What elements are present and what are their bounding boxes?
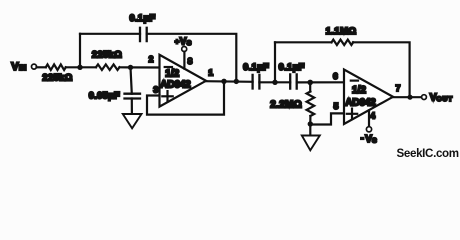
wire: pin 4 stem to -Vs bbox=[368, 110, 370, 126]
svg-text:0.1μF: 0.1μF bbox=[279, 62, 305, 72]
svg-text:VS: VS bbox=[365, 134, 377, 145]
wire: 2.2M bottom to node E bbox=[309, 116, 311, 124]
resistor 225k (second, series to pin 2) bbox=[96, 64, 120, 70]
wire: top feedback left segment bbox=[80, 33, 140, 35]
junction dot (output / top feedback) bbox=[234, 79, 239, 84]
ground symbol (stage 2) bbox=[302, 136, 320, 151]
svg-text:8: 8 bbox=[188, 56, 193, 66]
svg-text:SeekIC.com: SeekIC.com bbox=[397, 147, 459, 160]
svg-text:VOUT: VOUT bbox=[430, 93, 453, 104]
resistor 1.1M (stage-2 feedback) bbox=[332, 40, 354, 45]
U1 inverting input minus bar bbox=[165, 66, 172, 68]
wire: node D down to 2.2M bbox=[309, 82, 311, 91]
wire: R1 to node A bbox=[66, 66, 96, 68]
op-amp U2 1/2 AD642 triangle bbox=[344, 70, 393, 125]
svg-text:0.1μF: 0.1μF bbox=[243, 62, 269, 72]
wire: node E to pin 5 bbox=[310, 113, 344, 124]
svg-text:1/2: 1/2 bbox=[165, 69, 179, 80]
svg-text:AD642: AD642 bbox=[345, 97, 376, 108]
svg-text:4: 4 bbox=[370, 110, 375, 120]
junction dot (output / 1.1M feedback) bbox=[407, 95, 412, 100]
capacitor C2 0.05uF (shunt) bbox=[125, 94, 141, 99]
wire: C4 to pin 6 bbox=[297, 81, 344, 83]
wire: top feedback right segment down to op-amp output bbox=[147, 34, 237, 82]
node C junction dot (between coupling caps) bbox=[272, 80, 277, 85]
wire: node E to ground bbox=[309, 124, 311, 136]
wire: 1.1M feedback left segment bbox=[275, 41, 332, 43]
op-amp U1 1/2 AD642 triangle bbox=[160, 55, 207, 107]
capacitor C4 0.1uF (coupling 2) bbox=[290, 74, 297, 88]
wire: pin 3 feedback loop (down and around to output) bbox=[147, 81, 224, 114]
wire: node A up to feedback cap C1 bbox=[79, 34, 81, 68]
svg-text:1/2: 1/2 bbox=[352, 85, 366, 96]
svg-text:225kΩ: 225kΩ bbox=[92, 50, 122, 60]
resistor 2.2M (shunt) bbox=[307, 92, 315, 117]
-Vs supply terminal bbox=[366, 127, 371, 132]
input terminal (open circle) bbox=[32, 64, 37, 69]
svg-text:1: 1 bbox=[208, 68, 213, 78]
capacitor C3 0.1uF (coupling 1) bbox=[253, 75, 260, 89]
wire: C3 to C4 bbox=[259, 81, 290, 83]
svg-text:2.2MΩ: 2.2MΩ bbox=[270, 99, 302, 110]
wire: R2 to node B bbox=[120, 66, 160, 68]
U1 plus sign bbox=[162, 91, 172, 101]
node E junction dot bbox=[308, 121, 313, 126]
wire: 1.1M feedback right segment down to output bbox=[353, 42, 410, 97]
wire: input terminal to R1 bbox=[37, 66, 46, 68]
capacitor C1 0.1uF (stage-1 feedback) bbox=[140, 28, 147, 41]
node B junction dot bbox=[128, 65, 133, 70]
svg-text:2: 2 bbox=[149, 54, 154, 64]
svg-text:3: 3 bbox=[153, 84, 158, 94]
svg-text:AD642: AD642 bbox=[160, 79, 191, 90]
U2 plus sign bbox=[347, 109, 357, 119]
+Vs supply terminal bbox=[182, 47, 187, 52]
wire: U2 output to VOUT terminal bbox=[392, 96, 422, 98]
svg-text:5: 5 bbox=[334, 101, 339, 111]
svg-text:0.05μF: 0.05μF bbox=[89, 91, 120, 101]
ground symbol (stage 1) bbox=[123, 114, 142, 128]
svg-text:6: 6 bbox=[333, 71, 338, 81]
wire: U1 output to C3 bbox=[205, 80, 253, 83]
U2 inverting input minus bar bbox=[351, 79, 358, 81]
VOUT terminal (open circle) bbox=[422, 95, 427, 100]
svg-text:7: 7 bbox=[396, 83, 401, 93]
svg-text:VS: VS bbox=[180, 37, 192, 48]
node A junction dot bbox=[77, 65, 82, 70]
node D junction dot (pin 6 / 2.2M) bbox=[307, 80, 313, 86]
svg-text:VIN: VIN bbox=[11, 61, 26, 73]
resistor 225k (input, series) bbox=[46, 64, 66, 70]
svg-text:-: - bbox=[361, 133, 364, 143]
svg-text:1.1MΩ: 1.1MΩ bbox=[326, 26, 357, 37]
wire: node C up to 1.1M feedback bbox=[274, 42, 276, 82]
wire: C2 to ground bbox=[131, 99, 133, 115]
junction dot (output / pin-3 loop) bbox=[221, 79, 226, 84]
wire: node B down to C2 bbox=[131, 67, 132, 93]
svg-text:225kΩ: 225kΩ bbox=[42, 73, 72, 83]
svg-text:0.1μF: 0.1μF bbox=[129, 13, 155, 23]
wire: +Vs stem to pin 8 bbox=[183, 52, 185, 69]
